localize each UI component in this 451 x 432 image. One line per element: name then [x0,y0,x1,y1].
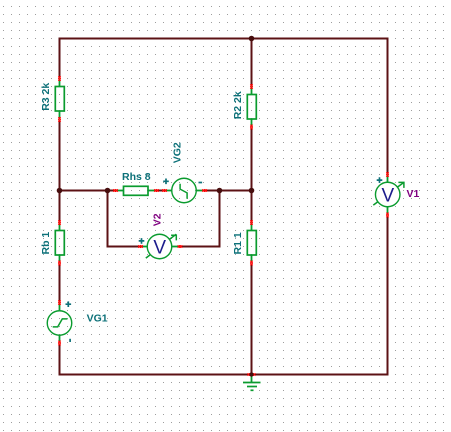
wire top horizontal [59,38,389,40]
wire right upper segment [387,38,389,174]
wire left lower segment [59,264,61,302]
junction node top R2 [249,36,255,42]
ground [243,372,261,390]
wire middle right part [205,190,253,192]
wire R2 branch upper [251,39,253,86]
wire left middle segment [59,120,61,222]
svg-text:Rb 1: Rb 1 [40,232,52,255]
plus sign V1 [377,177,383,183]
plus sign VG2 [163,179,169,185]
minus sign VG2 [199,182,203,184]
svg-text:VG2: VG2 [172,142,184,163]
svg-text:R2 2k: R2 2k [232,91,244,119]
wire middle horizontal left part [60,190,115,192]
wire R2 branch lower [251,128,253,191]
junction node middle R2R1 [249,188,255,194]
resistor Rb [55,220,64,265]
svg-text:Rhs 8: Rhs 8 [122,171,151,183]
wire V2 loop left vertical [107,191,109,248]
wire V2 loop left horizontal [107,246,139,248]
wire R1 branch upper [251,191,253,222]
svg-text:V: V [382,186,395,207]
svg-text:VG1: VG1 [87,312,108,324]
resistor R3 [55,76,64,122]
minus sign VG1 [69,339,71,342]
wire right lower segment [387,216,389,376]
svg-text:V1: V1 [407,188,420,200]
junction node V2 right [217,188,223,194]
wire V2 loop right horizontal [181,246,221,248]
voltmeter V1 [373,172,404,217]
plus sign VG1 [66,301,72,307]
wire bottom horizontal [59,374,389,376]
wire V2 loop right vertical [219,191,221,248]
junction node ground [249,372,253,376]
voltage generator VG1 [47,300,72,345]
voltage generator VG2 [162,178,207,203]
svg-text:R3 2k: R3 2k [40,83,52,111]
wire R1 branch lower [251,264,253,375]
svg-text:R1 1: R1 1 [232,232,244,254]
wire middle between Rhs and VG2 [157,190,163,192]
svg-text:V: V [153,238,166,259]
junction node V2 left [105,188,111,194]
svg-text:V2: V2 [151,213,163,226]
voltmeter V2 [138,234,182,259]
resistor Rhs [113,186,159,195]
plus sign V2 [139,238,145,244]
resistor R1 [247,220,256,265]
junction node left middle [57,188,63,194]
resistor R2 [247,84,256,129]
wire left bottom segment [59,344,61,376]
wire left upper segment [59,38,61,78]
